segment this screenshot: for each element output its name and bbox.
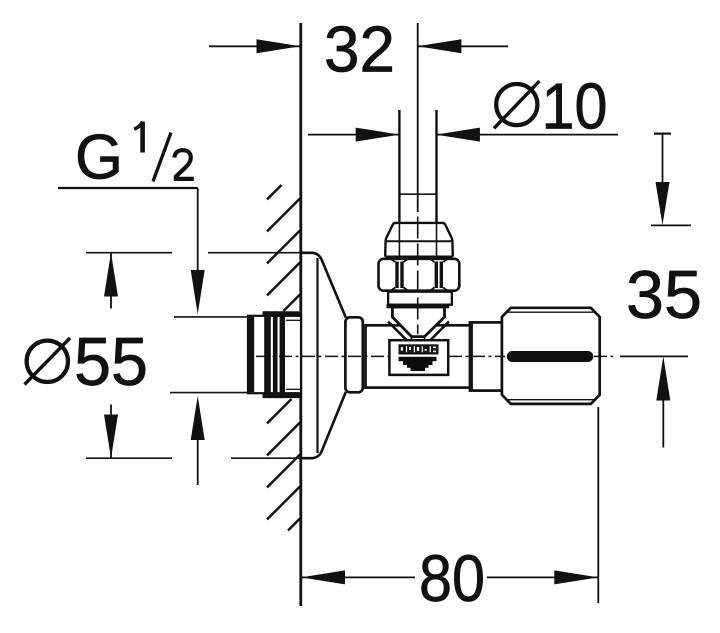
escutcheon ring [345,317,362,392]
centerline vertical (pipe axis) [417,23,419,212]
wall hatching [267,185,300,531]
wall line [299,23,302,606]
dimension Ø55 [25,253,301,459]
svg-text:32: 32 [324,13,395,86]
GROHE wordmark [399,344,439,354]
label G 1/2 [58,122,247,485]
escutcheon base and cone [301,253,346,458]
centerline horizontal (body axis) [256,355,613,357]
svg-text:35: 35 [626,257,702,333]
tailpiece G1/2 thread [248,311,301,398]
pipe Ø10 [398,110,400,223]
dimension Ø10 [308,70,618,143]
GROHE laurel emblem [399,357,437,371]
union block [385,222,453,257]
handle seam lines [508,311,594,313]
outlet stub [470,322,502,390]
svg-text:10: 10 [542,70,608,143]
svg-text:80: 80 [419,541,485,615]
dimension 35 [620,134,702,448]
union hex nut [379,259,460,291]
svg-text:G: G [75,123,123,193]
dimension 32 [209,13,508,86]
valve body [366,325,472,387]
dimension 80 [301,407,598,615]
funnel seat [387,306,450,340]
collar below nut [388,292,452,305]
logo plate [389,340,448,375]
handle grip groove [507,351,594,362]
handle [502,308,600,404]
svg-text:55: 55 [74,324,148,400]
